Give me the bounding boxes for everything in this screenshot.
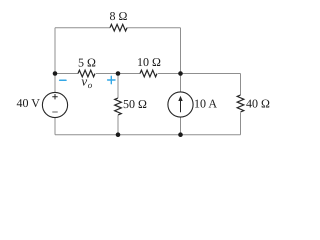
resistor R 5-ohm zigzag [78, 70, 95, 77]
wire left below voltage source [54, 118, 56, 135]
wire left above voltage source [54, 74, 56, 93]
wire bottom horizontal [55, 134, 241, 136]
wire top horizontal right of 8-ohm [127, 27, 181, 29]
node dot C (current source top) [178, 71, 183, 76]
voltage source plus sign [52, 94, 57, 99]
wire right vertical below 40-ohm [240, 113, 242, 135]
voltage source V1 40V circle [42, 92, 67, 117]
wire top horizontal left of 8-ohm [55, 27, 110, 29]
label vo plus polarity [108, 76, 115, 83]
svg-text:10 Ω: 10 Ω [137, 55, 161, 69]
wire mid horizontal node A to 5-ohm [55, 73, 78, 75]
svg-text:50 Ω: 50 Ω [123, 97, 147, 111]
resistor R 8-ohm zigzag [110, 24, 127, 31]
label vo minus polarity [60, 79, 66, 81]
resistor R 40-ohm zigzag vertical [237, 95, 244, 112]
node dot E (current source bottom) [178, 132, 183, 137]
wire mid horizontal 10-ohm to right branch [158, 73, 241, 75]
wire right vertical above 40-ohm [240, 74, 242, 96]
node dot B (50-ohm top) [116, 71, 121, 76]
voltage source minus sign [52, 111, 57, 113]
svg-text:10 A: 10 A [194, 97, 217, 111]
wire 50-ohm branch lower [117, 115, 119, 134]
wire 50-ohm branch upper [117, 74, 119, 99]
node dot A (left mid) [53, 71, 58, 76]
current source arrow head [178, 96, 182, 101]
wire top-left vertical [54, 28, 56, 74]
svg-text:40 Ω: 40 Ω [246, 96, 270, 110]
wire current source branch lower [180, 117, 182, 135]
wire top-right vertical [180, 28, 182, 74]
svg-text:40 V: 40 V [17, 96, 41, 110]
current source I1 10A circle [168, 92, 193, 117]
svg-text:8 Ω: 8 Ω [110, 9, 128, 23]
svg-text:vo: vo [81, 74, 92, 90]
node dot D (50-ohm bottom) [116, 132, 121, 137]
current source arrow shaft [180, 100, 182, 113]
resistor R 50-ohm zigzag vertical [115, 98, 122, 115]
wire current source branch upper [180, 74, 182, 92]
svg-text:5 Ω: 5 Ω [78, 55, 96, 69]
resistor R 10-ohm zigzag [140, 70, 157, 77]
wire mid horizontal 5-ohm to 10-ohm [96, 73, 140, 75]
